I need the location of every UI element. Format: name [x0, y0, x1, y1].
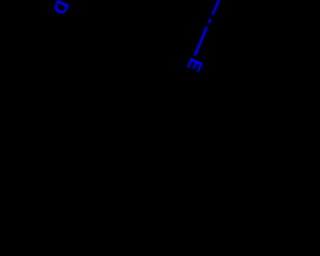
node label E — [183, 55, 208, 75]
wire: dash-dot edge to E, dot — [209, 19, 211, 23]
wire: dash-dot edge to E, long dash ending at label — [195, 27, 207, 56]
wire: dash-dot edge to E, long dash from top edge — [213, 0, 220, 15]
svg-text:E: E — [183, 55, 208, 75]
svg-text:D: D — [49, 0, 74, 18]
